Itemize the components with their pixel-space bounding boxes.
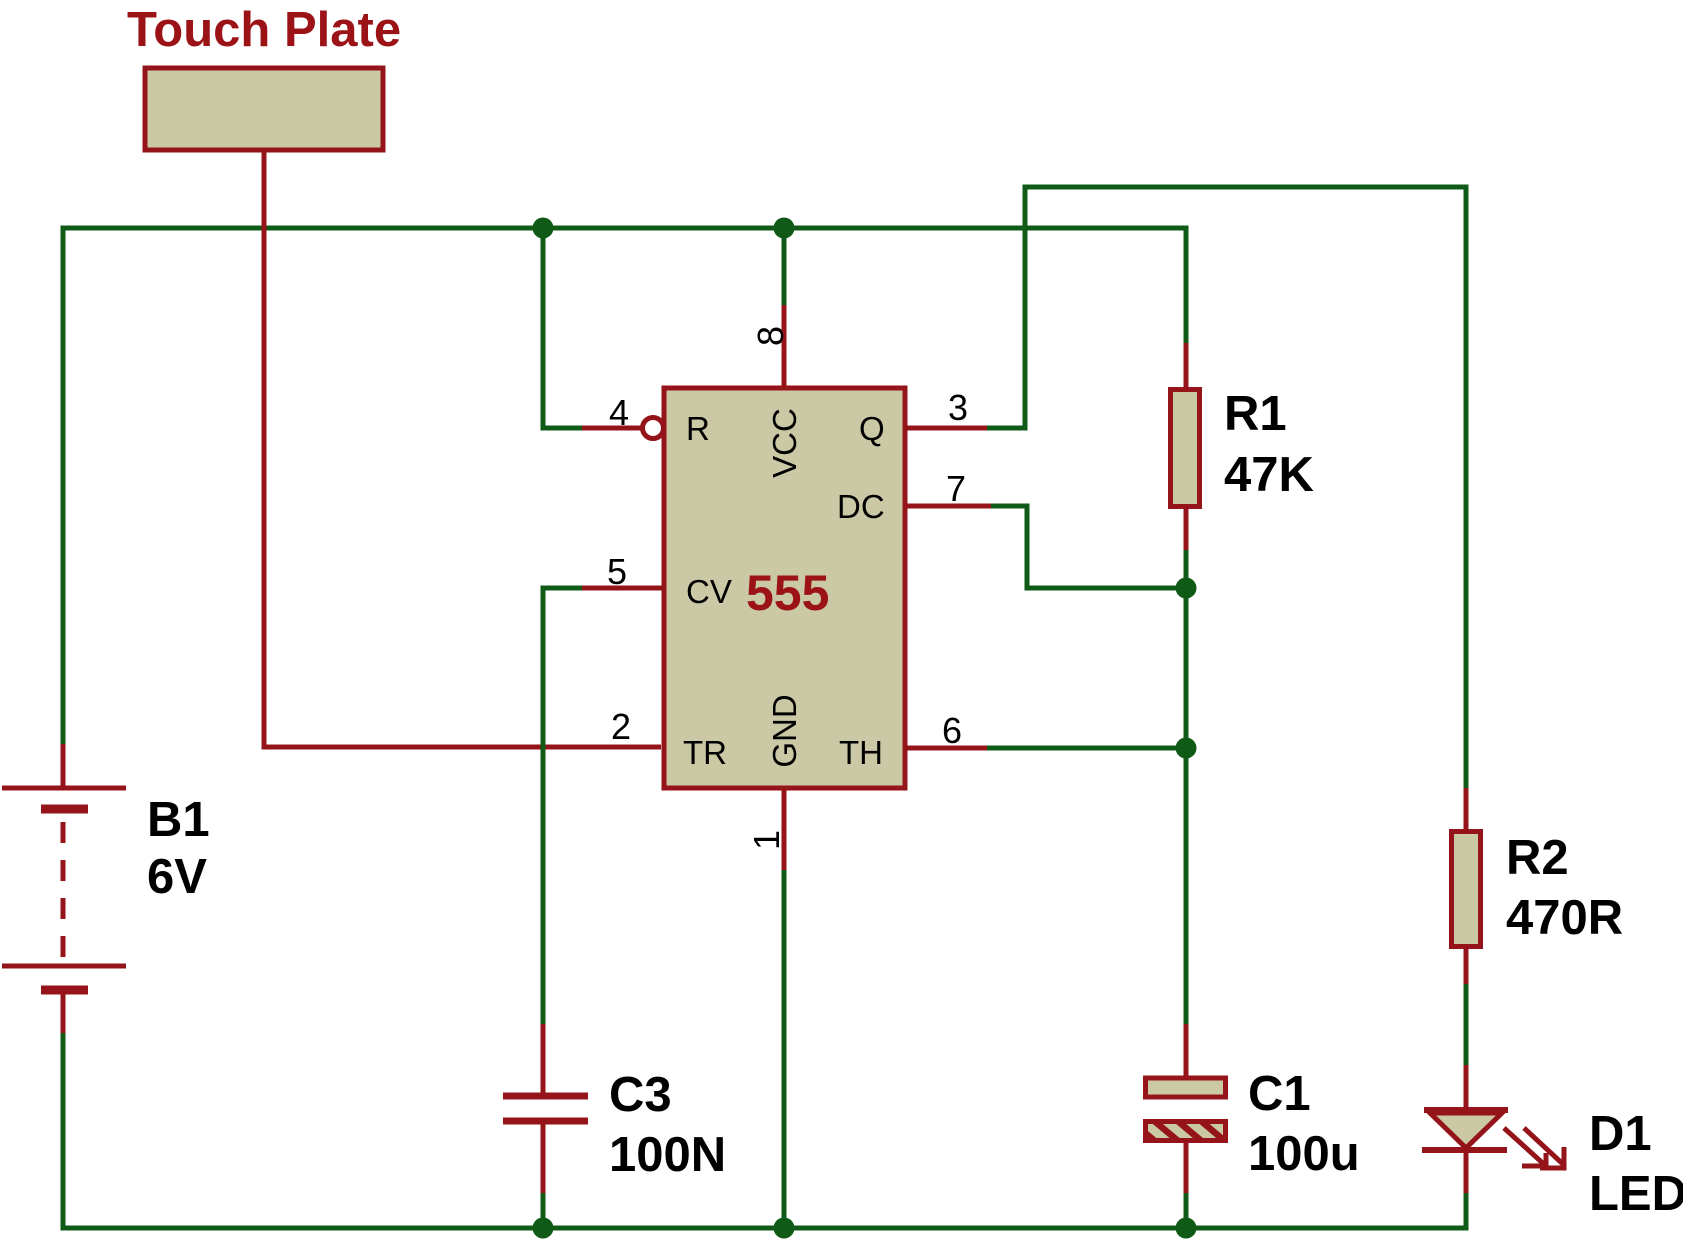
D1 light arrow 2 shaft [1524, 1128, 1565, 1166]
svg-text:6: 6 [942, 710, 962, 751]
svg-text:1: 1 [746, 830, 787, 850]
svg-text:TR: TR [683, 734, 727, 771]
svg-text:4: 4 [609, 392, 629, 433]
junction dot on ground rail at C1 [1176, 1218, 1197, 1239]
resistor R1 [1171, 343, 1200, 550]
touch plate TP1 [145, 68, 661, 747]
C1 plate bottom (hatched) [1146, 1122, 1226, 1141]
wire: DC pin7 net to R1 bottom junction [990, 506, 1186, 588]
pin 4 stub with inversion bubble [582, 426, 641, 431]
wire: R2 bottom to LED top [1464, 982, 1469, 1067]
svg-text:R1: R1 [1224, 387, 1287, 441]
svg-text:100N: 100N [609, 1128, 726, 1182]
svg-text:R2: R2 [1506, 831, 1569, 885]
battery B1 [2, 744, 126, 1033]
D1 triangle [1430, 1113, 1502, 1148]
svg-text:47K: 47K [1224, 448, 1314, 502]
wire: bottom ground rail with left rail lower segment and LED bottom stub [63, 1031, 1466, 1228]
junction dot on ground rail at C3 [533, 1218, 554, 1239]
svg-text:2: 2 [611, 706, 631, 747]
junction dot on ground rail at pin1 [774, 1218, 795, 1239]
R1 body [1171, 390, 1200, 507]
junction dot on VCC rail at pin4 drop [533, 218, 554, 239]
wire: CV net segment crossing over TR wire [541, 741, 546, 753]
svg-text:GND: GND [766, 694, 803, 767]
junction dot at R1 bottom / DC net [1176, 578, 1197, 599]
battery plate long 2 [2, 964, 126, 969]
LED D1 [1422, 1065, 1565, 1193]
svg-text:6V: 6V [147, 850, 207, 904]
junction dot on VCC rail at pin8 stub [774, 218, 795, 239]
capacitor C1 (electrolytic) [1146, 1024, 1226, 1193]
resistor R2 [1452, 788, 1481, 984]
battery plate short 1 [41, 805, 88, 814]
battery dashed link [61, 822, 66, 960]
svg-text:CV: CV [686, 573, 732, 610]
svg-text:C1: C1 [1248, 1067, 1311, 1121]
wire: touch plate to TR pin2 (red) [264, 150, 661, 747]
svg-text:DC: DC [837, 488, 885, 525]
D1 anode bar [1424, 1107, 1508, 1113]
C3 plate bottom [503, 1118, 588, 1125]
C1 plate top [1146, 1078, 1226, 1097]
C1 top stub [1184, 1024, 1189, 1077]
svg-text:D1: D1 [1589, 1107, 1652, 1161]
R2 bottom stub [1464, 948, 1469, 984]
svg-text:Touch Plate: Touch Plate [127, 3, 401, 57]
R2 top stub [1464, 788, 1469, 830]
wire: Q pin3 net to top-right rail down to R2 [986, 187, 1466, 790]
svg-text:TH: TH [839, 734, 883, 771]
pin 6 stub [904, 746, 987, 751]
op-amp/timer U1 555 body [664, 388, 905, 788]
D1 light arrow 2 head [1540, 1147, 1564, 1168]
wire: VCC top rail with left rail upper segment and R1 top drop [63, 228, 1186, 746]
C3 plate top [503, 1093, 588, 1100]
C3 top stub [541, 1024, 546, 1093]
svg-text:555: 555 [746, 565, 829, 621]
battery plate long 1 [2, 786, 126, 791]
svg-text:470R: 470R [1506, 891, 1623, 945]
battery top stub [61, 744, 66, 786]
battery bottom stub [61, 994, 66, 1033]
svg-text:VCC: VCC [766, 408, 803, 478]
wire: C1 bottom to ground rail [1184, 1191, 1189, 1228]
wire: VCC pin8 stub from rail [782, 228, 787, 307]
junction dot at TH net / C1 top [1176, 738, 1197, 759]
wire: reset pin4 net from VCC rail [543, 228, 582, 428]
C3 bottom stub [541, 1124, 546, 1193]
inversion bubble pin 4 [643, 418, 664, 439]
wire: TH pin6 net to R1/C1 junction [986, 746, 1186, 751]
svg-text:3: 3 [948, 387, 968, 428]
pin 7 stub [904, 504, 991, 509]
svg-text:Q: Q [859, 410, 885, 447]
svg-text:C3: C3 [609, 1068, 672, 1122]
pin 5 stub [582, 586, 664, 591]
D1 light arrow 1 head [1522, 1153, 1546, 1166]
battery plate short 2 [41, 986, 88, 995]
R1 top stub [1184, 343, 1189, 388]
wire: GND pin1 to ground rail [782, 869, 787, 1228]
R2 body [1452, 832, 1481, 947]
pin 8 stub [782, 305, 787, 390]
wire: CV pin5 net down to C3 [543, 588, 582, 1026]
D1 cathode bar [1422, 1147, 1507, 1153]
R1 bottom stub [1184, 508, 1189, 550]
pin 1 stub [782, 786, 787, 870]
C1 bottom stub [1184, 1142, 1189, 1193]
svg-text:LED: LED [1589, 1167, 1683, 1221]
D1 bottom stub [1464, 1153, 1469, 1193]
pin 3 stub [904, 426, 987, 431]
capacitor C3 [503, 1024, 588, 1193]
D1 top stub [1464, 1065, 1469, 1110]
svg-text:7: 7 [946, 468, 966, 509]
wire: C3 bottom to ground rail [541, 1191, 546, 1228]
svg-text:B1: B1 [147, 793, 210, 847]
D1 light arrow 1 shaft [1504, 1128, 1547, 1167]
svg-text:8: 8 [750, 326, 791, 346]
wire: R1 bottom to C1 top vertical [1184, 548, 1189, 1026]
svg-text:100u: 100u [1248, 1127, 1360, 1181]
svg-text:R: R [686, 410, 710, 447]
svg-text:5: 5 [607, 551, 627, 592]
